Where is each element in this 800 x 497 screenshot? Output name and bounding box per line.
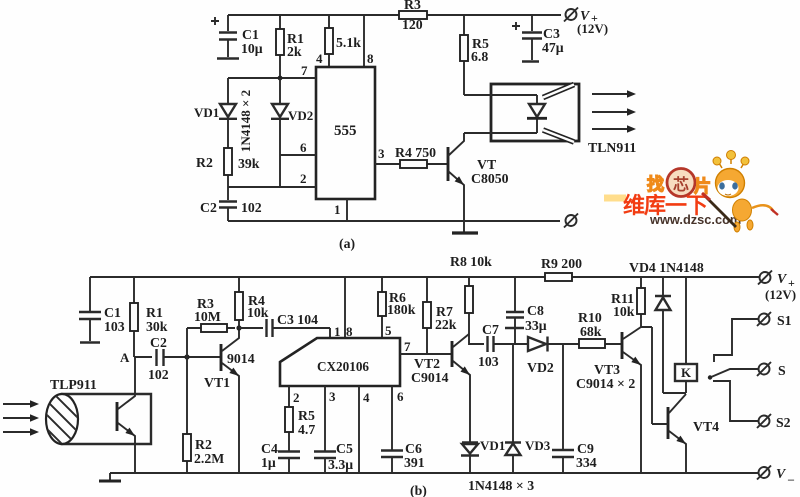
svg-text:4.7: 4.7 [298,422,315,437]
svg-text:C2: C2 [150,335,167,350]
svg-text:6.8: 6.8 [471,49,488,64]
resistor R2 (b) [183,357,224,473]
svg-text:C9014 × 2: C9014 × 2 [576,376,635,391]
svg-text:C3: C3 [543,26,560,41]
svg-text:VD3: VD3 [525,438,551,453]
svg-text:CX20106: CX20106 [317,359,369,374]
svg-text:4: 4 [363,390,370,405]
diode VD3 [505,344,551,473]
label 1N4148 x 2 [238,90,253,152]
svg-text:6: 6 [300,140,307,155]
radiation arrows (a) [592,90,636,133]
svg-text:10k: 10k [247,305,269,320]
node A [120,350,152,365]
capacitor C3 (a) [512,15,564,62]
resistor R4 (b) [235,277,269,328]
svg-text:2k: 2k [287,44,302,59]
svg-text:391: 391 [404,455,425,470]
svg-text:S: S [778,363,786,378]
svg-text:C1: C1 [104,305,121,320]
svg-text:K: K [681,365,692,380]
IR LED module TLN911 [464,84,636,155]
wire pin 6 / capacitor C6 [381,386,425,473]
svg-text:7: 7 [301,63,308,78]
svg-text:R10: R10 [578,310,602,325]
wire pin 6 (a) [280,140,316,155]
diode VD2 (b) [511,337,563,376]
resistor R1 (b) [130,277,168,357]
svg-text:(b): (b) [410,483,427,497]
svg-text:1μ: 1μ [261,455,276,470]
node junction R1/pin7 [278,76,283,81]
svg-text:TLN911: TLN911 [588,140,636,155]
wire bottom rail (b) [110,472,758,474]
svg-text:103: 103 [478,354,499,369]
svg-text:(a): (a) [339,236,355,252]
terminal ground (a) [564,214,578,228]
resistor R2 (a) [196,148,260,187]
diode VD4 [629,260,704,393]
svg-text:R8 10k: R8 10k [450,254,492,269]
svg-text:VD1: VD1 [194,105,219,120]
svg-text:R2: R2 [195,437,212,452]
svg-text:5: 5 [385,323,392,338]
svg-text:VT3: VT3 [594,362,620,377]
svg-text:(12V): (12V) [577,21,608,36]
svg-text:10μ: 10μ [241,41,263,56]
svg-text:C9: C9 [577,441,594,456]
svg-text:3.3μ: 3.3μ [328,457,353,472]
svg-text:C6: C6 [405,441,422,456]
svg-text:V: V [777,271,788,286]
capacitor C2 (b) [148,335,221,382]
svg-text:1N4148 × 3: 1N4148 × 3 [468,478,534,493]
wire pin 1/8 (b) [334,277,353,339]
resistor R9 [541,256,582,281]
capacitor C2 (a) [200,187,262,221]
svg-text:TLP911: TLP911 [50,377,97,392]
resistor R1 (a) [276,15,304,78]
wire pin 3 / capacitor C5 [314,386,353,473]
resistor R7 [423,277,457,354]
capacitor C3 (b) [239,312,330,338]
terminal S / switch arm [708,362,786,380]
label (a) [339,236,355,252]
wire pin 8 (a) [364,15,374,67]
svg-text:VT4: VT4 [693,419,719,434]
svg-text:10k: 10k [613,304,635,319]
diode VD1 (a) [194,78,237,148]
ground symbol (b) [99,473,121,481]
svg-text:102: 102 [241,200,262,215]
resistor R6 [378,277,416,338]
capacitor C1 (a) [211,15,263,59]
transistor VT C8050 [448,133,509,232]
svg-text:5.1k: 5.1k [336,35,361,50]
pin label 4 [316,51,323,66]
svg-text:C8: C8 [527,303,544,318]
watermark logo [604,151,778,233]
wire pin 1 (a) [334,199,347,221]
svg-text:VT1: VT1 [204,375,230,390]
svg-text:2: 2 [300,171,307,186]
svg-text:C2: C2 [200,200,217,215]
svg-text:39k: 39k [238,156,260,171]
resistor R3 [399,0,427,32]
wire pin 7 (b) [400,339,452,354]
svg-text:VD2: VD2 [288,108,313,123]
svg-text:103: 103 [104,319,125,334]
svg-text:S2: S2 [776,415,791,430]
svg-text:C5: C5 [336,441,353,456]
svg-text:180k: 180k [387,302,416,317]
diode VD2 (a) [271,78,313,187]
wire pin 7 (a) [228,63,316,78]
svg-text:C8050: C8050 [471,171,509,186]
svg-text:10M: 10M [194,309,221,324]
svg-text:C9014: C9014 [411,370,449,385]
resistor 5.1k [325,15,361,67]
svg-text:47μ: 47μ [542,40,564,55]
diode VD1 (b) [461,438,505,473]
resistor R4 [375,145,447,168]
svg-text:2.2M: 2.2M [194,451,224,466]
capacitor C7 [469,322,511,369]
transistor VT1 [204,328,255,473]
node junction R4/R3/VT1/C3 [236,325,241,330]
svg-text:334: 334 [576,455,597,470]
svg-text:3: 3 [378,146,385,161]
wire bottom rail (a) [228,220,560,222]
svg-text:R3: R3 [404,0,421,12]
node junction A/C2/R3 [184,354,189,359]
svg-text:30k: 30k [146,319,168,334]
capacitor C1 (b) [79,277,125,343]
relay K [663,277,697,393]
label (b) [410,483,427,497]
svg-text:VT: VT [477,157,496,172]
svg-text:R2: R2 [196,155,213,170]
svg-text:A: A [120,350,130,365]
svg-text:8: 8 [367,51,374,66]
transistor VT4 [652,394,719,473]
svg-text:7: 7 [404,339,411,354]
svg-text:R5: R5 [298,408,315,423]
svg-text:R4 750: R4 750 [395,145,436,160]
transistor VT3 [576,327,652,473]
resistor R11 [611,277,645,327]
terminal S2 [713,381,791,430]
ground symbol under VT [452,231,478,234]
svg-text:2: 2 [293,390,300,405]
wire top rail (a) [228,14,561,16]
terminal S1 [714,312,792,362]
svg-text:VD4 1N4148: VD4 1N4148 [629,260,704,275]
svg-text:1: 1 [334,202,341,217]
photodetector TLP911 [30,357,151,473]
svg-text:3: 3 [329,389,336,404]
wire pin 2 / resistor R5 (b) / capacitor C4 [261,386,315,473]
resistor R3 (b) [187,296,235,357]
terminal V- [757,466,795,487]
resistor R8 [450,254,492,345]
label 1N4148 x 3 [468,478,534,493]
terminal V+ (a) [564,8,608,37]
svg-text:R9 200: R9 200 [541,256,582,271]
svg-text:V: V [776,466,787,481]
svg-text:VD2: VD2 [527,360,554,375]
svg-text:22k: 22k [435,317,457,332]
svg-text:4: 4 [316,51,323,66]
svg-text:9014: 9014 [227,351,255,366]
terminal V+ (b) [758,271,796,303]
svg-text:找: 找 [647,174,664,194]
svg-text:33μ: 33μ [525,318,547,333]
svg-text:C3 104: C3 104 [277,312,318,327]
svg-text:R1: R1 [146,305,163,320]
svg-text:芯: 芯 [673,175,689,194]
svg-text:6: 6 [397,389,404,404]
svg-text:1N4148 × 2: 1N4148 × 2 [238,90,253,152]
svg-text:C1: C1 [242,27,259,42]
transistor VT2 [411,334,472,441]
svg-text:102: 102 [148,367,169,382]
wire pin 2 (a) [228,171,316,187]
radiation arrows (b) [3,400,39,436]
capacitor C9 [552,344,597,473]
svg-text:VD1: VD1 [480,438,505,453]
svg-text:C7: C7 [482,322,499,337]
resistor R5 (a) [460,15,489,95]
svg-text:S1: S1 [777,313,792,328]
svg-text:(12V): (12V) [765,287,796,302]
svg-text:C4: C4 [261,441,278,456]
resistor R10 [563,310,621,348]
svg-text:120: 120 [402,17,423,32]
svg-text:VT2: VT2 [414,356,440,371]
svg-text:555: 555 [334,123,357,139]
wire pin 4 [359,386,370,473]
IC U2 CX20106 [280,338,400,386]
op-amp U1 555 [316,67,375,199]
svg-text:–: – [787,472,795,486]
wire top rail (b) [90,276,759,278]
capacitor C8 [505,277,547,344]
svg-text:68k: 68k [580,324,602,339]
